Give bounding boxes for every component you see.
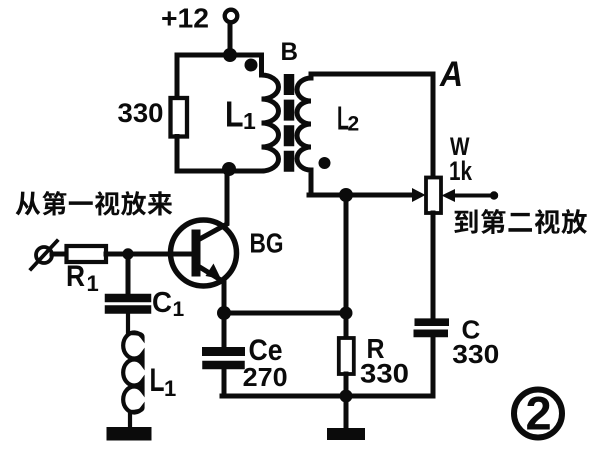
- inductor L1 (input shunt coil): [123, 313, 142, 427]
- junction dot base node: [122, 248, 133, 259]
- wire input to R1: [52, 252, 66, 257]
- +12 supply terminal: [225, 10, 238, 23]
- junction dot collector node: [222, 162, 236, 176]
- wire emitter node down to Ce: [222, 313, 227, 347]
- capacitor C1 plate top: [109, 294, 147, 303]
- inductor L1 primary winding: [262, 55, 279, 171]
- svg-text:+12: +12: [161, 3, 209, 34]
- wire bottom of primary loop: [177, 169, 262, 174]
- wire R bottom to rail: [344, 374, 349, 396]
- output terminal dot: [490, 191, 498, 199]
- wire wiper output to terminal: [452, 194, 496, 198]
- resistor R 330: [339, 338, 354, 374]
- emitter arrowhead: [206, 264, 222, 280]
- wire base node down to C1: [126, 254, 131, 294]
- capacitor C1 plate bottom: [109, 305, 147, 314]
- wire bottom ground rail: [222, 394, 433, 399]
- wire R1 to base: [106, 252, 192, 257]
- junction dot supply node: [223, 48, 237, 62]
- junction dot ground rail: [340, 390, 353, 403]
- svg-text:A: A: [439, 55, 463, 94]
- label 到第二视放 (to 2nd video amp): [454, 209, 587, 234]
- svg-text:B: B: [281, 38, 299, 66]
- capacitor C plate top: [415, 318, 450, 326]
- resistor 330 (primary shunt): [171, 98, 188, 137]
- inductor L2 secondary winding: [297, 74, 311, 195]
- phase dot L1: [245, 59, 258, 72]
- svg-text:1: 1: [87, 271, 99, 296]
- wire secondary node down to R: [344, 200, 349, 338]
- transformer core: [284, 74, 295, 172]
- svg-text:330: 330: [118, 98, 164, 128]
- transistor base bar: [192, 234, 201, 272]
- ground (main): [344, 396, 349, 428]
- svg-text:1: 1: [243, 108, 256, 134]
- wire pot bottom down to capacitor C: [431, 213, 436, 317]
- wire resistor to bottom of primary loop: [175, 137, 180, 172]
- resistor R1: [67, 246, 107, 262]
- svg-text:BG: BG: [250, 228, 284, 259]
- wire Ce bottom to rail: [222, 369, 227, 396]
- wire rail down to resistor: [175, 55, 180, 98]
- junction dot secondary bottom node: [339, 188, 353, 202]
- phase dot L2: [319, 157, 331, 169]
- svg-text:330: 330: [360, 359, 409, 389]
- figure number 2 (circled): [514, 390, 562, 438]
- wire supply terminal to node: [228, 24, 233, 55]
- svg-text:1: 1: [164, 376, 176, 401]
- svg-text:L: L: [225, 94, 244, 135]
- junction dot R top node: [340, 307, 353, 320]
- transistor emitter lead: [198, 266, 224, 313]
- svg-text:330: 330: [452, 339, 499, 369]
- wire L2 bottom to wiper: [309, 193, 413, 198]
- wiper arrowhead (left, pointing right): [412, 188, 426, 202]
- input terminal (circle with slash): [36, 247, 52, 263]
- label 从第一视放来 (from 1st video amp): [16, 191, 173, 216]
- svg-text:1k: 1k: [449, 156, 473, 186]
- capacitor Ce plate top: [207, 347, 241, 356]
- wire collector node down to transistor: [225, 171, 230, 218]
- svg-text:L: L: [150, 362, 165, 398]
- svg-text:1: 1: [173, 298, 185, 321]
- wire C bottom to ground rail: [431, 338, 436, 396]
- svg-text:2: 2: [526, 387, 552, 440]
- output arrowhead (right, pointing left at wiper): [442, 189, 456, 202]
- transistor BG body circle: [171, 220, 237, 286]
- potentiometer W 1k body: [426, 178, 441, 214]
- svg-text:R: R: [66, 260, 85, 293]
- ground (input): [107, 427, 152, 441]
- capacitor C plate bottom: [414, 330, 449, 338]
- capacitor Ce plate bottom: [207, 361, 241, 370]
- wire emitter node to R node: [224, 311, 346, 316]
- svg-text:C: C: [152, 287, 172, 319]
- junction dot emitter node: [217, 306, 231, 320]
- transistor collector lead: [198, 171, 227, 240]
- svg-text:270: 270: [243, 362, 288, 392]
- wire top rail: [177, 53, 261, 58]
- wire L2 top to node A rail: [311, 74, 433, 177]
- svg-text:2: 2: [348, 113, 360, 136]
